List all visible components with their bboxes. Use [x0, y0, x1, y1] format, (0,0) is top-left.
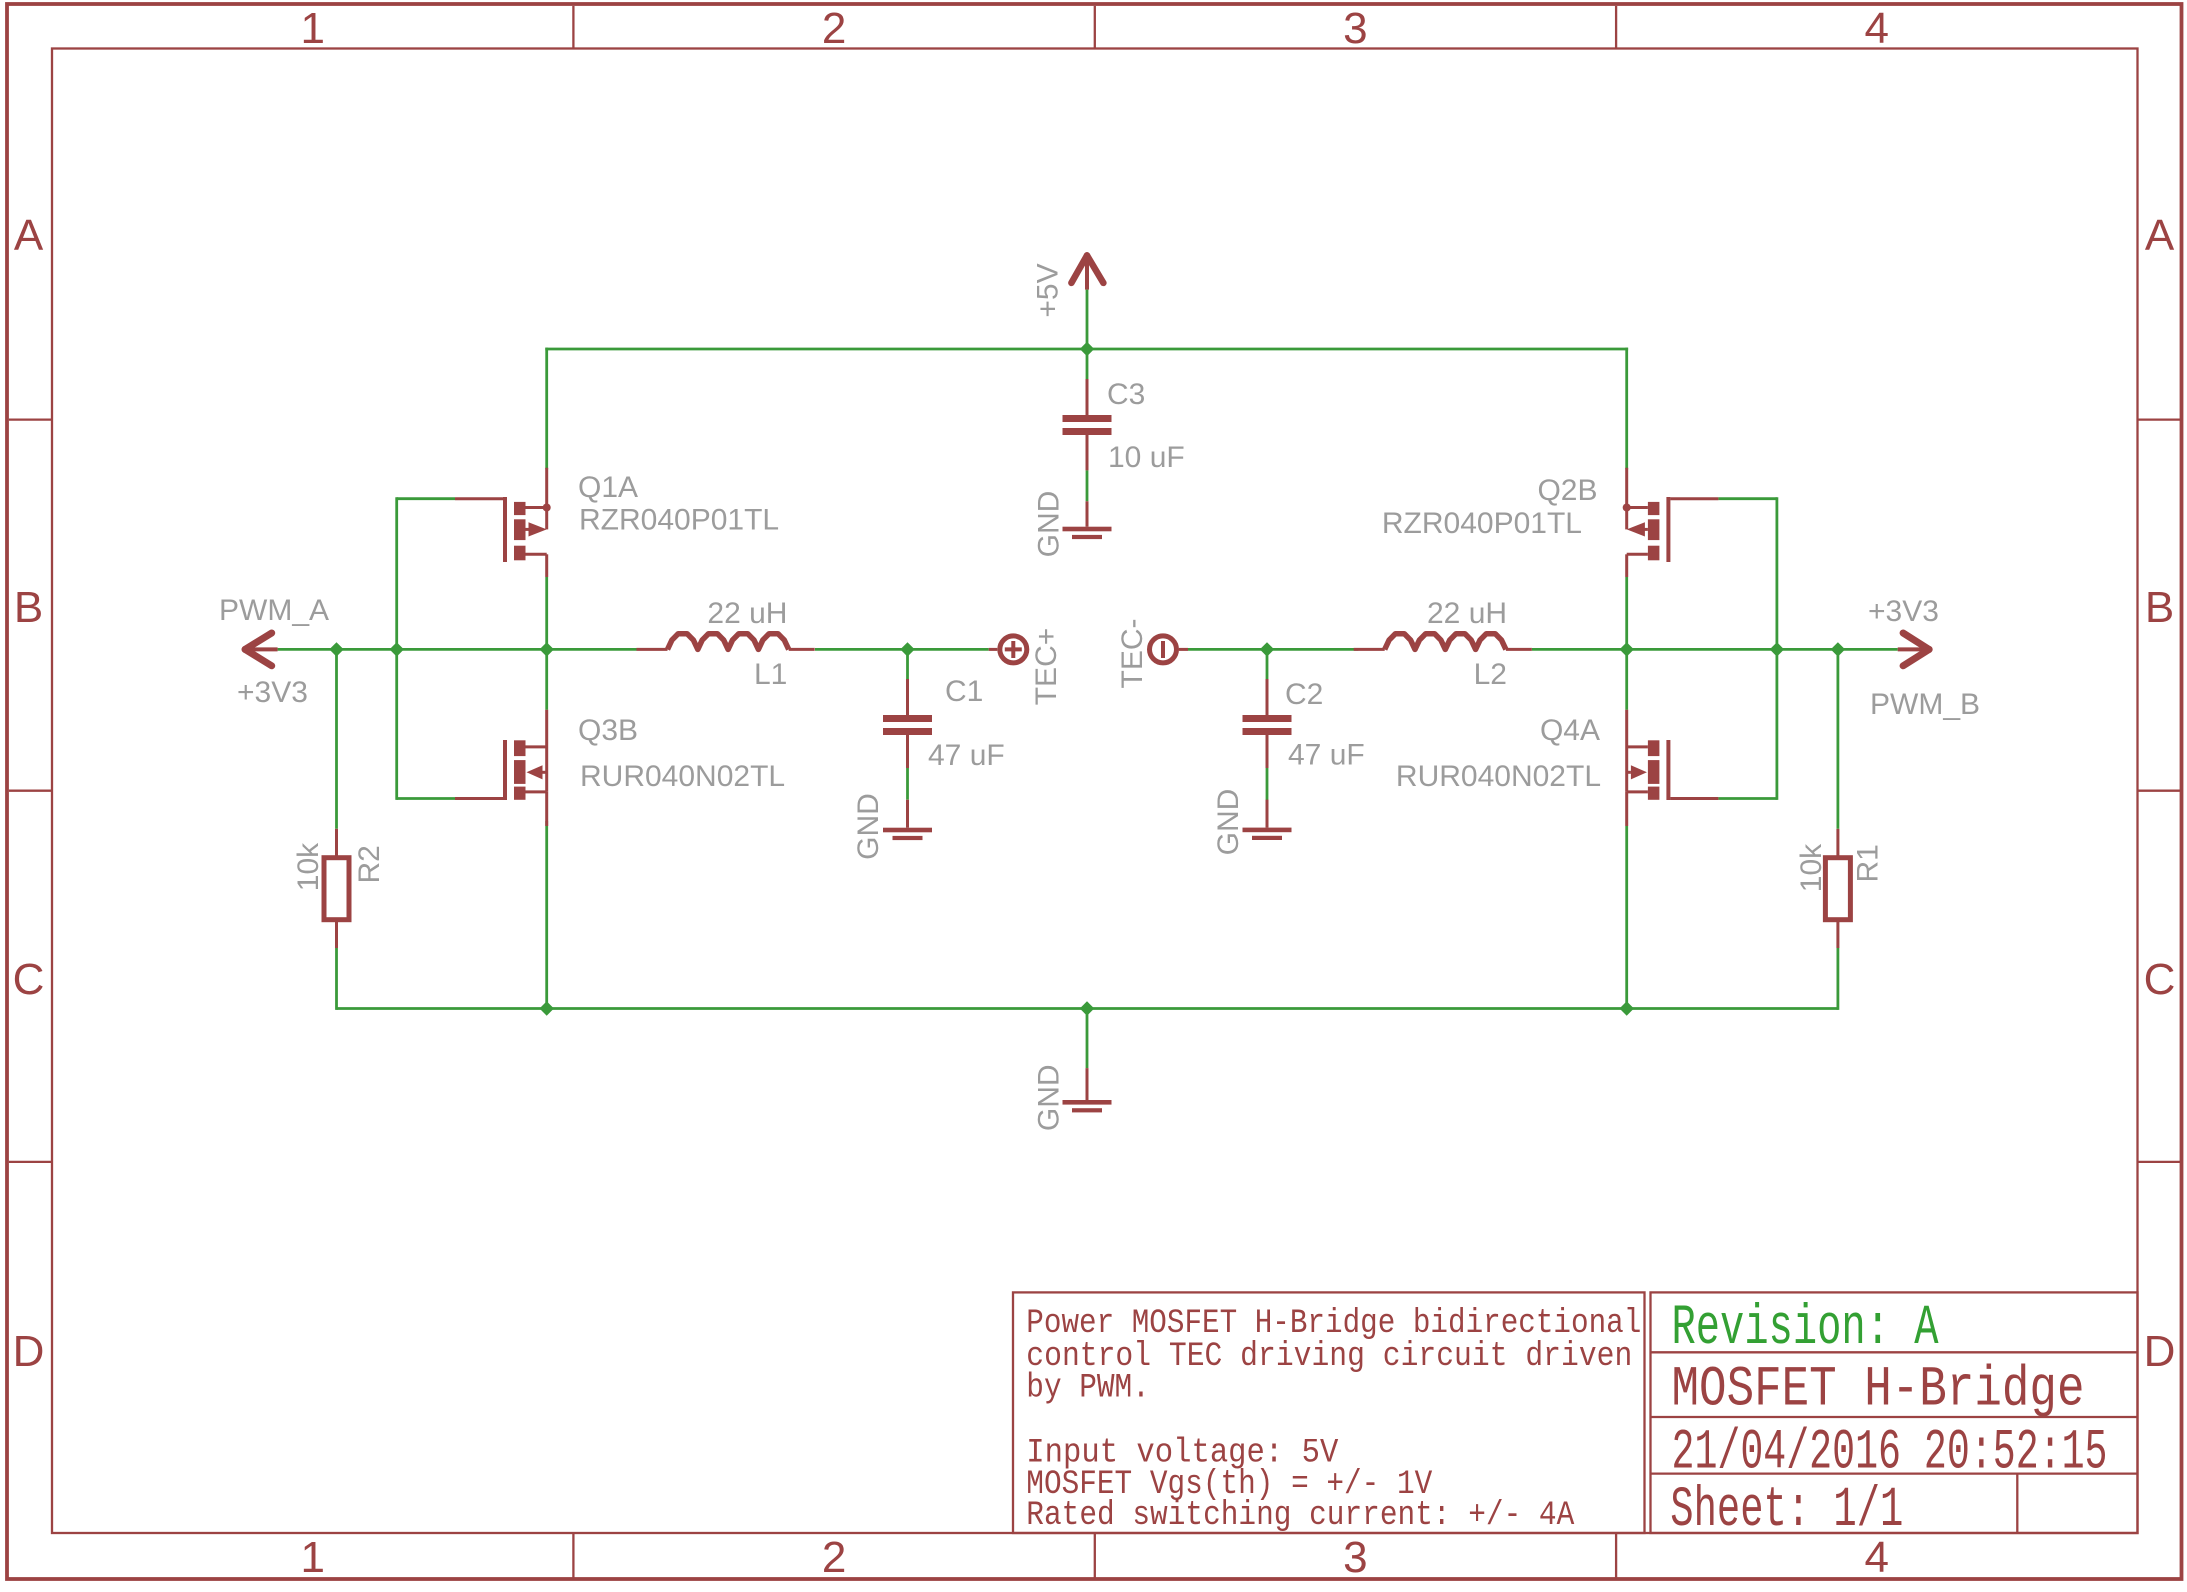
- capacitor C2 lower pin: [1266, 800, 1269, 828]
- svg-text:TEC+: TEC+: [1030, 628, 1063, 706]
- svg-text:L2: L2: [1474, 658, 1507, 691]
- junction node C2 tap: [1260, 642, 1274, 656]
- svg-text:RZR040P01TL: RZR040P01TL: [579, 504, 779, 537]
- wire R2 bottom: [335, 946, 338, 1008]
- svg-text:GND: GND: [852, 793, 885, 860]
- svg-text:Sheet: 1/1: Sheet: 1/1: [1670, 1479, 1903, 1543]
- wire Q2B gate stub: [1718, 497, 1777, 500]
- svg-text:PWM_B: PWM_B: [1870, 688, 1980, 721]
- junction node R2 tap: [329, 642, 343, 656]
- +5V supply symbol: [1071, 255, 1103, 289]
- svg-text:by PWM.: by PWM.: [1026, 1370, 1150, 1408]
- node TEC- pin: [1150, 636, 1189, 663]
- junction node Q4A source gnd: [1620, 1001, 1634, 1015]
- svg-text:47 uF: 47 uF: [1288, 739, 1365, 772]
- wire C1 top: [906, 649, 909, 679]
- junction node R1 tap: [1831, 642, 1845, 656]
- node PWM_A port arrow: [245, 633, 278, 666]
- svg-text:C1: C1: [945, 675, 983, 708]
- wire C3 bottom: [1086, 470, 1089, 501]
- transistor Q1A (RZR040P01TL): [455, 468, 551, 577]
- resistor R1: [1825, 829, 1850, 948]
- svg-text:Q2B: Q2B: [1537, 474, 1597, 507]
- svg-text:+3V3: +3V3: [1868, 595, 1939, 628]
- svg-text:47 uF: 47 uF: [928, 739, 1005, 772]
- node TEC+ pin: [989, 636, 1027, 663]
- svg-text:PWM_A: PWM_A: [219, 594, 329, 627]
- wire right bridge lower (Q4A source to GND rail): [1625, 826, 1628, 1009]
- wire C2 top: [1266, 649, 1269, 679]
- wire left gate rail: [395, 499, 398, 799]
- svg-text:A: A: [14, 211, 44, 260]
- svg-text:D: D: [13, 1327, 45, 1376]
- svg-text:1: 1: [300, 1533, 324, 1582]
- svg-text:C3: C3: [1107, 378, 1145, 411]
- wire Q1A gate stub: [397, 497, 455, 500]
- wire L2 to PWM_B: [1532, 648, 1898, 651]
- wire right bridge mid (node to Q4A drain): [1625, 649, 1628, 709]
- svg-text:Q3B: Q3B: [578, 714, 638, 747]
- svg-text:R1: R1: [1852, 844, 1885, 882]
- wire C1 bottom: [906, 768, 909, 800]
- junction node C1 tap: [900, 642, 914, 656]
- junction node left gate rail: [390, 642, 404, 656]
- inductor L2: [1354, 634, 1532, 650]
- junction node Q3B source gnd: [540, 1001, 554, 1015]
- ground bottom pin: [1086, 1068, 1089, 1100]
- wire left bridge mid (node to Q3B drain): [545, 649, 548, 709]
- capacitor C3: [1063, 349, 1112, 470]
- capacitor C1: [883, 679, 932, 768]
- transistor Q4A (RUR040N02TL): [1627, 710, 1719, 826]
- note description text: [1026, 1305, 1641, 1535]
- wire right bridge upper (Q2B source to +5V rail): [1625, 349, 1628, 468]
- transistor Q2B (RZR040P01TL): [1623, 468, 1719, 577]
- junction node gnd tap: [1080, 1001, 1094, 1015]
- svg-text:Rated switching current: +/- 4: Rated switching current: +/- 4A: [1026, 1497, 1575, 1535]
- svg-text:B: B: [14, 583, 43, 632]
- wire left bridge lower (Q3B source to GND rail): [545, 821, 548, 1009]
- transistor Q3B (RUR040N02TL): [455, 710, 547, 826]
- svg-text:Revision: A: Revision: A: [1672, 1297, 1940, 1361]
- svg-text:Q4A: Q4A: [1540, 714, 1600, 747]
- svg-text:3: 3: [1343, 4, 1367, 53]
- svg-text:TEC-: TEC-: [1116, 619, 1149, 689]
- junction node right bridge out: [1620, 642, 1634, 656]
- title block frame: [1651, 1292, 2138, 1533]
- wire right bridge mid (Q2B drain to node): [1625, 577, 1628, 649]
- wire C2 bottom: [1266, 768, 1269, 800]
- wire GND center tap: [1086, 1009, 1089, 1069]
- junction node +5V tap: [1080, 342, 1094, 356]
- capacitor C2: [1243, 679, 1292, 768]
- inductor L1: [637, 634, 815, 650]
- svg-text:Q1A: Q1A: [578, 471, 638, 504]
- svg-text:21/04/2016 20:52:15: 21/04/2016 20:52:15: [1672, 1422, 2108, 1486]
- svg-text:MOSFET H-Bridge: MOSFET H-Bridge: [1672, 1359, 2085, 1423]
- wire R1 bottom: [1837, 949, 1840, 1008]
- ground of C1: [883, 828, 932, 840]
- wire +5V stem: [1086, 290, 1089, 349]
- wire L1 to TEC+: [815, 648, 989, 651]
- svg-text:C: C: [2144, 955, 2176, 1004]
- svg-text:22 uH: 22 uH: [1427, 597, 1507, 630]
- svg-text:RZR040P01TL: RZR040P01TL: [1382, 507, 1582, 540]
- svg-text:2: 2: [822, 4, 846, 53]
- junction node right gate rail: [1770, 642, 1784, 656]
- svg-text:RUR040N02TL: RUR040N02TL: [1396, 760, 1601, 793]
- wire right gate rail: [1776, 499, 1779, 799]
- svg-text:D: D: [2144, 1327, 2176, 1376]
- wire GND bottom rail: [337, 1007, 1838, 1010]
- ground bottom rail: [1063, 1100, 1112, 1112]
- svg-text:3: 3: [1343, 1533, 1367, 1582]
- svg-text:4: 4: [1865, 4, 1889, 53]
- svg-text:1: 1: [300, 4, 324, 53]
- wire left bridge upper (Q1A source to +5V rail): [545, 349, 548, 468]
- svg-text:C2: C2: [1285, 678, 1323, 711]
- note description box: [1013, 1292, 1645, 1533]
- resistor R2: [324, 829, 349, 948]
- svg-text:22 uH: 22 uH: [707, 597, 787, 630]
- svg-text:GND: GND: [1033, 491, 1066, 558]
- svg-text:R2: R2: [353, 845, 386, 883]
- capacitor C1 lower pin: [906, 800, 909, 828]
- svg-text:10k: 10k: [1795, 843, 1828, 892]
- svg-text:GND: GND: [1033, 1064, 1066, 1131]
- svg-text:+3V3: +3V3: [237, 676, 308, 709]
- wire R2 top: [335, 649, 338, 828]
- node PWM_B port arrow: [1898, 633, 1929, 666]
- svg-text:C: C: [13, 955, 45, 1004]
- wire +5V top rail: [547, 348, 1627, 351]
- svg-text:2: 2: [822, 1533, 846, 1582]
- capacitor C3 lower pin: [1086, 501, 1089, 526]
- svg-text:GND: GND: [1212, 789, 1245, 856]
- wire R1 top: [1837, 649, 1840, 828]
- wire mid rail left (PWM_A to L1): [278, 648, 637, 651]
- wire left bridge mid (Q1A drain to node): [545, 577, 548, 649]
- svg-text:B: B: [2145, 583, 2174, 632]
- svg-text:+5V: +5V: [1032, 263, 1065, 317]
- junction node left bridge out: [540, 642, 554, 656]
- svg-text:10k: 10k: [292, 842, 325, 891]
- svg-text:10 uF: 10 uF: [1108, 441, 1185, 474]
- wire TEC- to L2: [1188, 648, 1358, 651]
- svg-text:A: A: [2145, 211, 2175, 260]
- svg-text:L1: L1: [754, 658, 787, 691]
- ground of C3: [1063, 527, 1112, 539]
- wire Q3B gate stub: [397, 797, 455, 800]
- ground of C2: [1243, 828, 1292, 840]
- wire Q4A gate stub: [1718, 797, 1777, 800]
- svg-text:RUR040N02TL: RUR040N02TL: [580, 760, 785, 793]
